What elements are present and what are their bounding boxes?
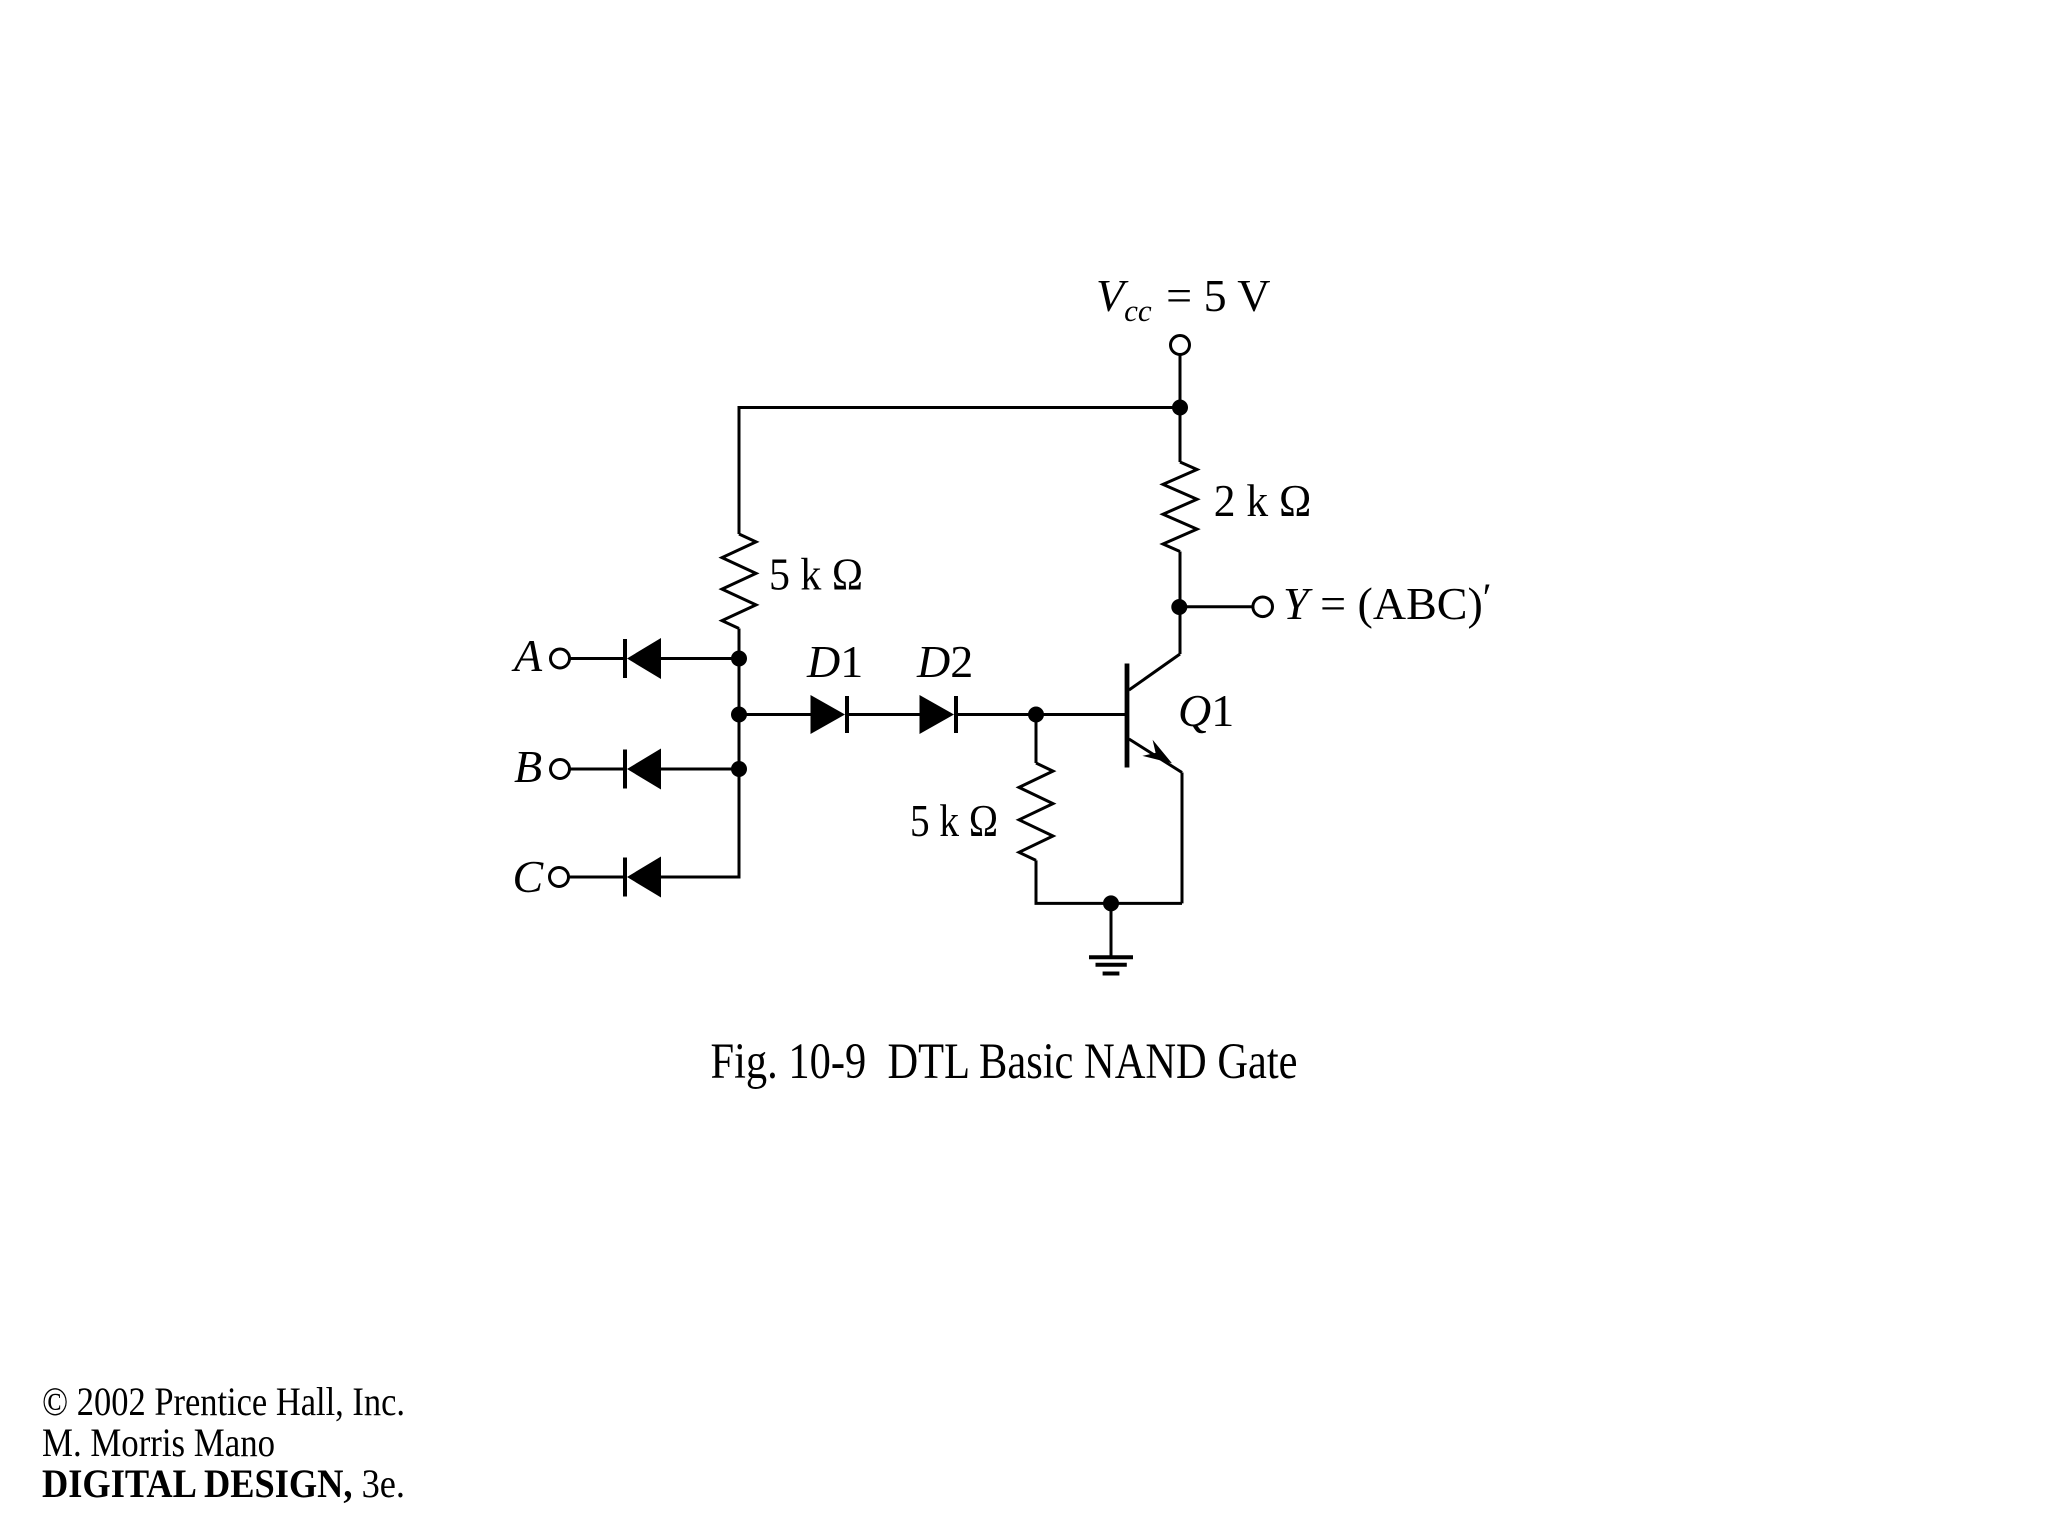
junction ground node [1103,895,1119,911]
wire R2 to output node [1179,552,1182,608]
junction base node [1028,707,1044,723]
ground [1089,903,1133,973]
svg-text:M. Morris Mano: M. Morris Mano [42,1420,275,1465]
wire base node to Q1 base [1036,713,1127,716]
junction main node [731,707,747,723]
wire D2 to base node [956,713,1036,716]
svg-text:© 2002 Prentice Hall, Inc.: © 2002 Prentice Hall, Inc. [42,1379,405,1424]
wire main node to D1 [739,713,811,716]
svg-text:Vcc = 5 V: Vcc = 5 V [1096,270,1270,328]
svg-text:Fig. 10-9 DTL Basic NAND Gate: Fig. 10-9 DTL Basic NAND Gate [711,1034,1298,1090]
svg-text:C: C [513,851,545,902]
transistor Q1 [1127,654,1182,773]
wire diode B to node B [661,768,739,771]
junction output node Y [1171,599,1187,615]
wire D1 to D2 [847,713,920,716]
wire diode A to node A [661,657,739,660]
svg-text:DIGITAL DESIGN, 3e.: DIGITAL DESIGN, 3e. [42,1461,405,1506]
wire base node down to R3 [1035,715,1038,764]
wire R3 to ground node [1036,860,1111,903]
wire A terminal to diode A [570,657,628,660]
wire input bus vertical [738,629,741,878]
svg-text:Y = (ABC)′: Y = (ABC)′ [1283,575,1492,629]
wire emitter vertical [1181,773,1184,904]
svg-text:D2: D2 [916,636,973,687]
wire B terminal to diode B [570,768,628,771]
terminal Vcc [1171,336,1190,355]
diode D2 [920,695,957,734]
svg-text:5 k Ω: 5 k Ω [769,549,863,600]
wire diode C to input bus [661,876,741,879]
terminal Y [1253,597,1273,617]
input terminal A [551,649,570,668]
wire collector to output node [1179,607,1182,654]
input terminal B [551,760,570,779]
svg-text:A: A [511,630,543,681]
wire left branch vertical down to R1 [738,406,741,534]
junction node B [731,761,747,777]
input terminal C [550,868,569,887]
svg-text:2 k Ω: 2 k Ω [1214,475,1312,526]
diode input A [625,638,661,679]
resistor R2 2k [1163,462,1197,552]
junction node A [731,651,747,667]
wire Vcc terminal to Vcc node [1179,355,1182,408]
resistor R3 5k (base) [1019,763,1053,860]
wire Vcc node to R2 [1179,408,1182,463]
diode D1 [811,695,848,734]
svg-text:D1: D1 [806,636,863,687]
wire emitter to ground node [1111,902,1182,905]
svg-text:5 k Ω: 5 k Ω [910,795,998,846]
wire C terminal to diode C [569,876,628,879]
diode input C [625,857,661,898]
junction Vcc node [1172,400,1188,416]
wire output node to terminal Y [1179,605,1253,608]
svg-text:Q1: Q1 [1178,685,1234,736]
diode input B [625,749,661,790]
wire top horizontal Vcc node to left branch [739,406,1180,409]
wire R1 to node A [738,629,741,659]
resistor R1 5k (input pull-up) [722,534,756,629]
svg-text:B: B [514,741,542,792]
